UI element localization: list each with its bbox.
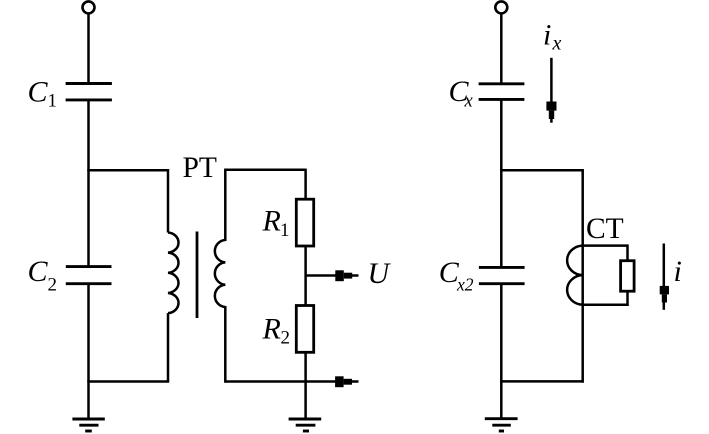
svg-text:R: R <box>262 313 281 346</box>
svg-text:1: 1 <box>280 220 290 241</box>
wire to R1 top <box>304 169 307 200</box>
svg-text:C: C <box>28 255 49 288</box>
capacitor Cx <box>479 84 525 100</box>
wire U arrow tail <box>351 274 359 277</box>
wire PT secondary bottom <box>224 306 227 383</box>
wire CT burden bottom <box>583 303 629 306</box>
svg-text:i: i <box>674 255 682 288</box>
wire Cx to Cx2 <box>500 99 503 267</box>
wire CT burden top <box>583 244 628 247</box>
wire bottom arrow tail <box>351 380 359 383</box>
resistor R1 <box>296 199 313 246</box>
capacitor C1 <box>66 84 112 100</box>
arrow at bottom output <box>335 376 352 387</box>
terminal T1 (left input) <box>83 1 95 13</box>
arrow i tail <box>663 302 666 310</box>
wire R1 to R2 <box>304 246 307 306</box>
wire T2 to Cx <box>500 13 503 84</box>
svg-text:1: 1 <box>48 91 58 112</box>
PT core <box>196 232 199 319</box>
wire PT primary top <box>167 169 170 233</box>
terminal T2 (right input) <box>495 1 507 13</box>
svg-text:CT: CT <box>586 213 624 245</box>
PT primary winding <box>168 233 179 314</box>
wire T1 to C1 <box>87 13 90 83</box>
resistor R2 <box>296 306 313 353</box>
svg-text:R: R <box>262 204 281 237</box>
wire C2 to ground <box>87 284 90 420</box>
wire R2 to ground <box>304 352 307 419</box>
capacitor Cx2 <box>479 267 525 283</box>
svg-text:x: x <box>464 91 474 111</box>
wire Cx2 to ground <box>500 284 503 419</box>
wire node U junction <box>306 274 336 277</box>
wire burden right bottom <box>626 291 629 306</box>
svg-text:2: 2 <box>281 327 291 348</box>
svg-text:C: C <box>28 75 49 108</box>
wire burden right top <box>626 244 629 260</box>
wire node B to CT branch <box>500 169 583 172</box>
svg-text:x: x <box>552 33 562 55</box>
arrowhead i <box>660 286 669 303</box>
svg-text:i: i <box>543 18 551 51</box>
svg-text:U: U <box>368 257 392 290</box>
arrow ix line <box>550 58 553 102</box>
PT secondary winding <box>215 240 225 307</box>
ground G1 <box>72 419 104 431</box>
resistor RB (CT burden) <box>621 261 635 292</box>
svg-text:2: 2 <box>48 274 58 295</box>
wire CT primary conductor <box>581 169 584 383</box>
svg-text:PT: PT <box>183 152 217 184</box>
wire PT primary bottom <box>167 313 170 381</box>
wire node A to PT primary top <box>87 169 168 172</box>
wire secondary top to R1 <box>224 169 306 172</box>
wire PT secondary top <box>224 170 227 241</box>
svg-text:x2: x2 <box>456 274 474 294</box>
wire primary bottom return <box>87 380 169 383</box>
wire CT branch bottom return <box>500 380 583 383</box>
arrowhead ix <box>546 102 556 120</box>
wire secondary bottom line <box>225 380 335 383</box>
CT secondary winding <box>567 246 583 305</box>
arrow ix tail <box>550 118 553 123</box>
arrow at U output <box>335 270 352 281</box>
ground G2 <box>289 419 322 431</box>
ground G3 <box>485 419 518 431</box>
capacitor C2 <box>66 267 112 284</box>
arrow i line <box>663 244 666 287</box>
wire C1 to C2 <box>87 100 90 267</box>
